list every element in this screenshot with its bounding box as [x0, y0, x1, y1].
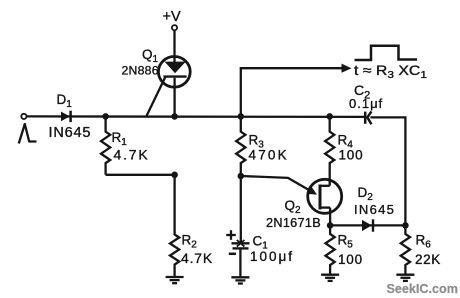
capacitor C1 (electrolytic) — [232, 240, 250, 248]
svg-text:470K: 470K — [249, 148, 289, 163]
wire +V to Q1 — [173, 30, 175, 62]
ground (R6) — [396, 275, 414, 281]
diode D2 — [362, 219, 373, 231]
diode D1 — [61, 111, 71, 122]
svg-text:D2: D2 — [358, 185, 374, 203]
node junction dot D1/R1 — [102, 113, 109, 120]
svg-text:R2: R2 — [182, 232, 198, 250]
capacitor C2 — [365, 111, 371, 124]
svg-text:+V: +V — [163, 9, 181, 25]
input terminal — [21, 114, 26, 119]
output pulse waveform — [355, 46, 418, 60]
wire bus after C2 to R6 column corner — [370, 117, 405, 225]
node dot R3-bottom/C1/Q2-emitter — [238, 173, 245, 180]
node dot Q1/bus — [171, 113, 178, 120]
svg-text:R1: R1 — [112, 130, 128, 148]
transistor Q2 (UJT) — [241, 176, 342, 225]
ground (C1) — [231, 277, 249, 283]
ground (R5) — [321, 275, 339, 281]
svg-text:4.7K: 4.7K — [181, 250, 213, 266]
wire main horizontal bus — [27, 115, 366, 118]
svg-text:SeekIC.com: SeekIC.com — [387, 282, 458, 296]
svg-text:IN645: IN645 — [354, 202, 395, 217]
svg-text:100μf: 100μf — [250, 249, 294, 264]
ground (R2) — [166, 277, 184, 283]
node dot R3/bus — [238, 113, 245, 120]
resistor R3 — [236, 116, 245, 176]
arrowhead output — [342, 64, 352, 73]
svg-text:100: 100 — [339, 148, 364, 163]
svg-text:100: 100 — [338, 252, 363, 267]
svg-text:R6: R6 — [416, 233, 432, 251]
input spike waveform — [19, 124, 37, 144]
label - (C1) — [229, 253, 236, 256]
svg-text:2N886: 2N886 — [122, 64, 159, 78]
svg-text:Q1: Q1 — [142, 47, 159, 65]
resistor R4 — [325, 116, 334, 185]
wire C1 to ground — [239, 248, 241, 277]
node dot R1-bottom/R2 — [171, 172, 178, 179]
transistor Q1 (SCR symbol) — [147, 57, 191, 117]
resistor R2 — [170, 175, 179, 277]
svg-text:IN645: IN645 — [49, 125, 92, 141]
svg-text:4.7K: 4.7K — [114, 147, 150, 163]
node dot R4/bus — [326, 113, 333, 120]
wire R1 bottom to R2 column — [106, 174, 175, 176]
svg-text:22K: 22K — [415, 252, 441, 267]
resistor R6 — [401, 225, 410, 274]
svg-text:2N1671B: 2N1671B — [266, 216, 321, 230]
resistor R5 — [326, 225, 335, 274]
svg-text:0.1μf: 0.1μf — [349, 96, 383, 111]
wire R3 bottom to C1 — [240, 176, 242, 243]
wire Q2 base1 row to R6 column — [330, 224, 405, 226]
label + (C1) — [226, 230, 236, 240]
svg-text:R5: R5 — [338, 233, 354, 251]
+V terminal — [172, 25, 177, 30]
svg-text:Q2: Q2 — [285, 198, 302, 216]
resistor R1 — [101, 116, 110, 174]
wire output branch with arrow — [241, 68, 342, 116]
node dot Q2-base1/R5/D2 — [327, 222, 334, 229]
svg-text:t ≈ R3 XC1: t ≈ R3 XC1 — [354, 62, 427, 81]
svg-text:D1: D1 — [57, 92, 73, 110]
node dot D2/R6 — [402, 222, 409, 229]
